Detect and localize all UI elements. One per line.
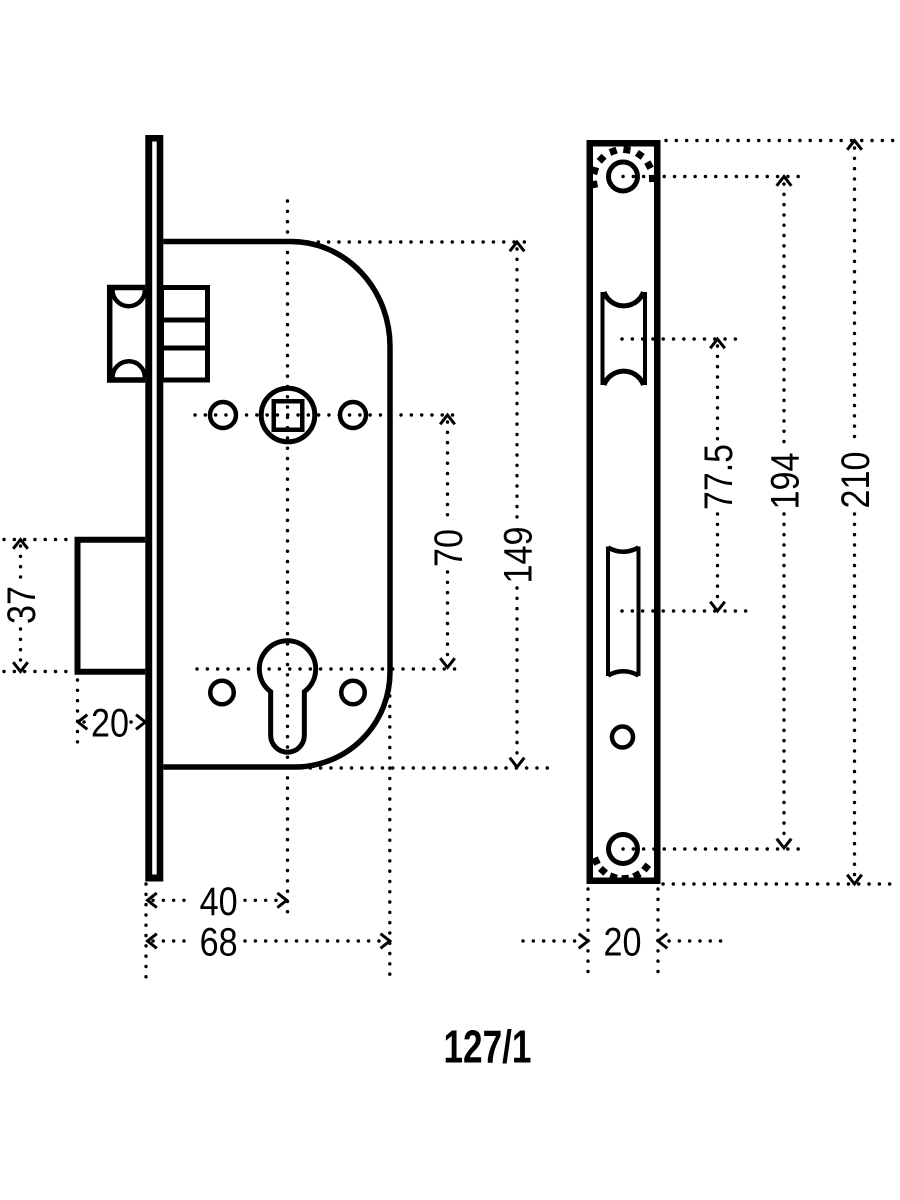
dim 68 row segments — [153, 939, 384, 942]
arrow 194 up — [777, 177, 792, 186]
svg-text:77.5: 77.5 — [697, 444, 741, 510]
arrow 210 up — [847, 141, 862, 150]
main vertical centerline — [286, 201, 289, 921]
arrow 20R pointing left — [658, 934, 667, 949]
top screw ref — [623, 175, 800, 178]
svg-text:210: 210 — [834, 452, 878, 509]
dim 149 line segments — [515, 249, 518, 760]
svg-text:127/1: 127/1 — [444, 1021, 532, 1073]
bottom screw hole — [609, 835, 638, 864]
body bottom ref line — [300, 766, 551, 769]
arrow 68 left — [148, 934, 157, 949]
deadbolt opening bottom arc — [608, 671, 639, 675]
dim 77.5 segments — [716, 346, 719, 604]
svg-text:149: 149 — [497, 527, 541, 584]
lock body outline — [163, 242, 390, 768]
cylinder side hole right — [341, 681, 365, 705]
arrow 37 down — [13, 662, 28, 671]
arrow 20L left — [78, 715, 87, 730]
deadbolt opening top arc — [608, 548, 639, 552]
plate bottom ref — [663, 882, 897, 885]
bottom screw ref — [623, 847, 805, 850]
DOTTED REFERENCE LINES — [4, 141, 897, 978]
arrow 40 right — [277, 893, 286, 908]
cylinder side hole left — [210, 681, 234, 705]
dim 37 line segments — [19, 546, 22, 665]
dim 210 segments — [853, 148, 856, 877]
ARROWHEADS (chevrons) — [13, 141, 862, 949]
arrow 70 up — [440, 415, 455, 424]
arrow 149 up — [510, 242, 525, 251]
svg-text:20: 20 — [604, 921, 642, 965]
arrow 149 down — [510, 758, 525, 767]
latch bolt top arc — [113, 290, 145, 306]
svg-text:68: 68 — [200, 921, 238, 965]
body top ref line — [308, 240, 525, 243]
dim 40 row segments — [153, 899, 281, 902]
faceplate front — [590, 143, 658, 881]
arrow 77.5 down — [710, 602, 725, 611]
cylinder centerline horizontal — [197, 667, 458, 670]
spindle side hole left — [210, 402, 236, 428]
svg-text:37: 37 — [0, 586, 44, 624]
dim 70 line segments — [446, 422, 449, 661]
ext below deadbolt — [76, 680, 79, 747]
arrow 194 down — [777, 839, 792, 848]
arrow 70 down — [440, 658, 455, 667]
latch opening top arc — [604, 292, 644, 306]
dim 20 left row segments — [84, 720, 137, 723]
arrow 77.5 up — [710, 339, 725, 348]
deadbolt top ref — [4, 538, 71, 541]
spindle centerline horizontal — [195, 413, 458, 416]
bottom countersink dotted arc — [596, 861, 650, 879]
svg-text:40: 40 — [200, 880, 238, 924]
spring box line 2 — [162, 346, 208, 351]
deadbolt bottom ref — [4, 670, 71, 673]
latch bolt — [110, 288, 146, 381]
ext below plate left — [586, 889, 589, 977]
spindle follower circle — [261, 388, 315, 442]
spindle side hole right — [340, 402, 366, 428]
latch opening sides — [603, 292, 646, 385]
dim 194 segments — [782, 184, 785, 841]
arrow 68 right — [381, 934, 390, 949]
ext below faceplate left — [144, 884, 147, 977]
arrow 37 up — [13, 540, 28, 549]
ext body right edge — [388, 696, 391, 977]
plate top ref — [666, 139, 897, 142]
euro cylinder keyhole — [259, 641, 315, 752]
spring box line 1 — [162, 318, 208, 323]
latch bolt bottom arc — [113, 361, 145, 377]
top countersink dotted arc — [594, 150, 653, 185]
svg-text:70: 70 — [427, 529, 471, 567]
deadbolt opening sides — [608, 547, 639, 677]
svg-text:194: 194 — [764, 453, 808, 510]
dim 20 right row segments — [523, 939, 723, 942]
ext below plate right — [656, 889, 659, 977]
arrow 40 left — [148, 893, 157, 908]
latch opening ref — [622, 337, 745, 340]
deadbolt — [78, 540, 146, 672]
arrow 20R pointing right — [579, 934, 588, 949]
deadbolt opening ref — [622, 609, 749, 612]
latch opening bottom arc — [604, 371, 644, 385]
arrow 20L right — [136, 715, 145, 730]
spindle square hole — [274, 401, 303, 430]
svg-text:20: 20 — [91, 702, 129, 746]
top screw hole — [609, 162, 638, 191]
latch spring box — [162, 288, 208, 381]
faceplate (edge view) — [145, 135, 163, 882]
arrow 210 down — [847, 875, 862, 884]
DIMENSION TEXTS — [0, 444, 878, 1073]
middle hole — [612, 727, 633, 748]
